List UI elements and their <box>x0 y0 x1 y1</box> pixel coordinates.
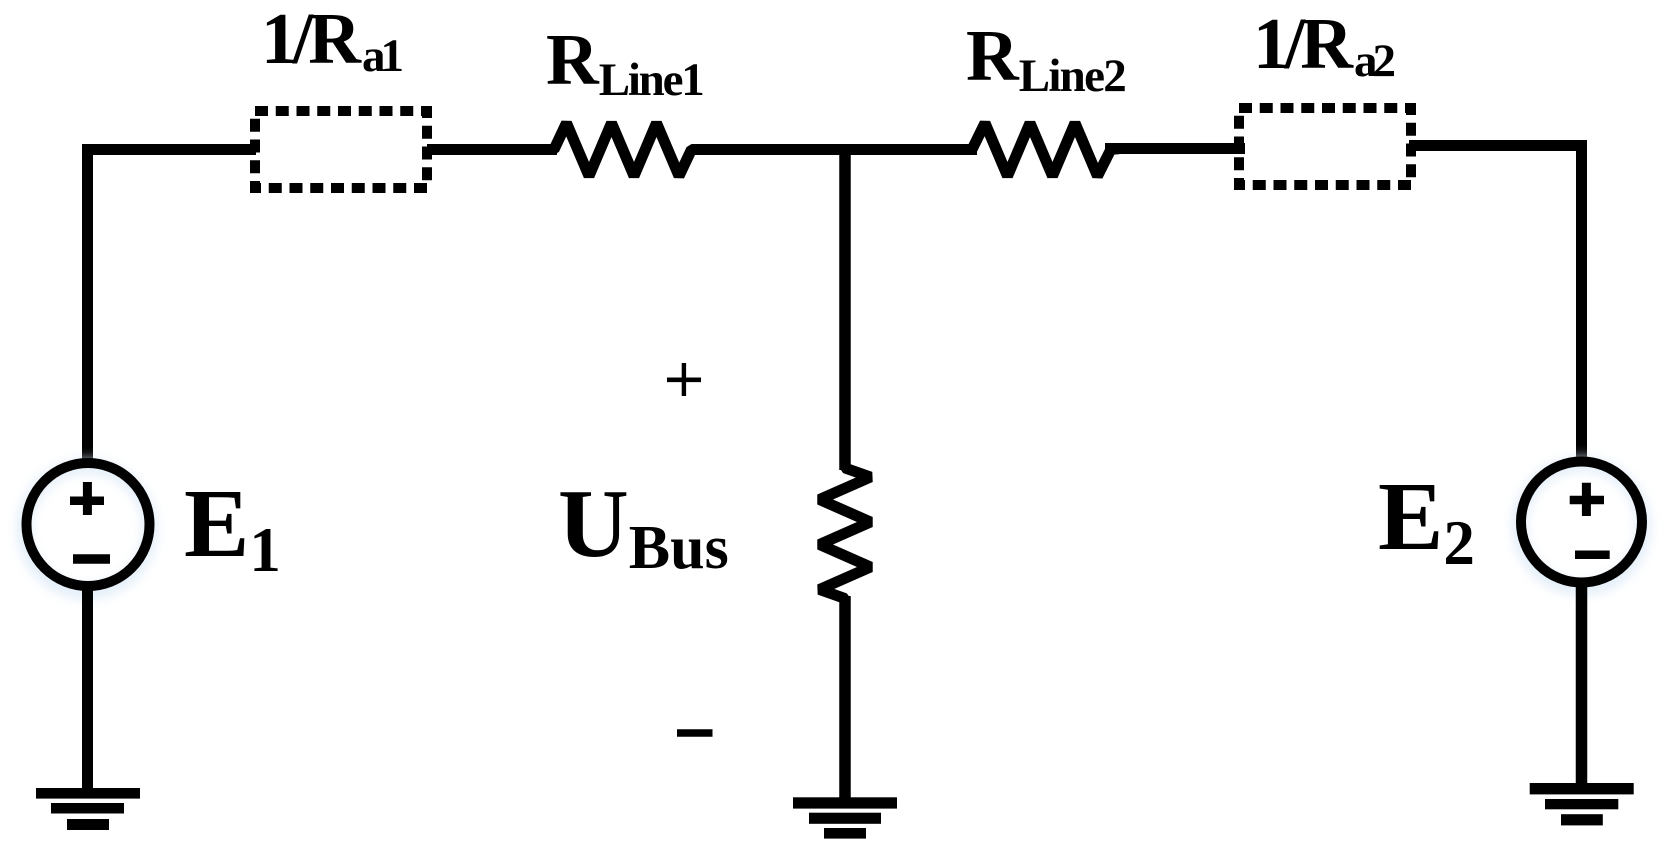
wire: right vertical from corner down to E2 <box>1576 140 1587 461</box>
wire: E2 to right ground <box>1576 584 1588 789</box>
halo artifact around E1 <box>24 466 150 592</box>
resistor: bus load (vertical) <box>820 460 871 606</box>
halo artifact around E2 <box>1520 464 1644 588</box>
wire: from RLine1 to RLine2 through bus node <box>692 144 978 155</box>
svg-text:RLine2: RLine2 <box>966 15 1127 102</box>
svg-text:a1: a1 <box>362 30 404 82</box>
wire: between RLine2 and 1/Ra2 box <box>1105 143 1245 154</box>
svg-text:E1: E1 <box>184 470 281 585</box>
wire: bus resistor to center ground <box>839 596 851 803</box>
voltage source E2 <box>1521 462 1642 583</box>
wire: E1 to left ground <box>82 585 93 793</box>
ground: center (bus) <box>793 797 897 838</box>
svg-text:E2: E2 <box>1378 463 1475 578</box>
svg-text:1/R: 1/R <box>1253 3 1354 84</box>
svg-text:RLine1: RLine1 <box>546 19 705 106</box>
svg-text:a2: a2 <box>1354 35 1396 87</box>
label: minus sign below UBus <box>677 729 713 736</box>
label: plus sign above UBus <box>667 363 701 396</box>
wire: left vertical from top wire down to E1 <box>82 144 93 466</box>
voltage source E1 <box>27 463 150 586</box>
ground: left (E1) <box>36 788 140 830</box>
svg-text:UBus: UBus <box>558 470 729 582</box>
conductance 1/Ra1 dashed box <box>255 111 427 188</box>
wire: top-left horizontal from E1 branch to 1/Ra1 box <box>82 144 256 155</box>
ground: right (E2) <box>1530 783 1634 825</box>
wire: from 1/Ra2 box to top-right corner <box>1409 140 1587 151</box>
svg-text:1/R: 1/R <box>261 0 362 79</box>
resistor RLine2 <box>964 123 1119 176</box>
conductance 1/Ra2 dashed box <box>1239 108 1411 185</box>
resistor RLine1 <box>546 123 700 176</box>
wire: between 1/Ra1 box and RLine1 <box>427 144 557 155</box>
wire: bus node vertical drop to bus resistor <box>839 144 851 470</box>
